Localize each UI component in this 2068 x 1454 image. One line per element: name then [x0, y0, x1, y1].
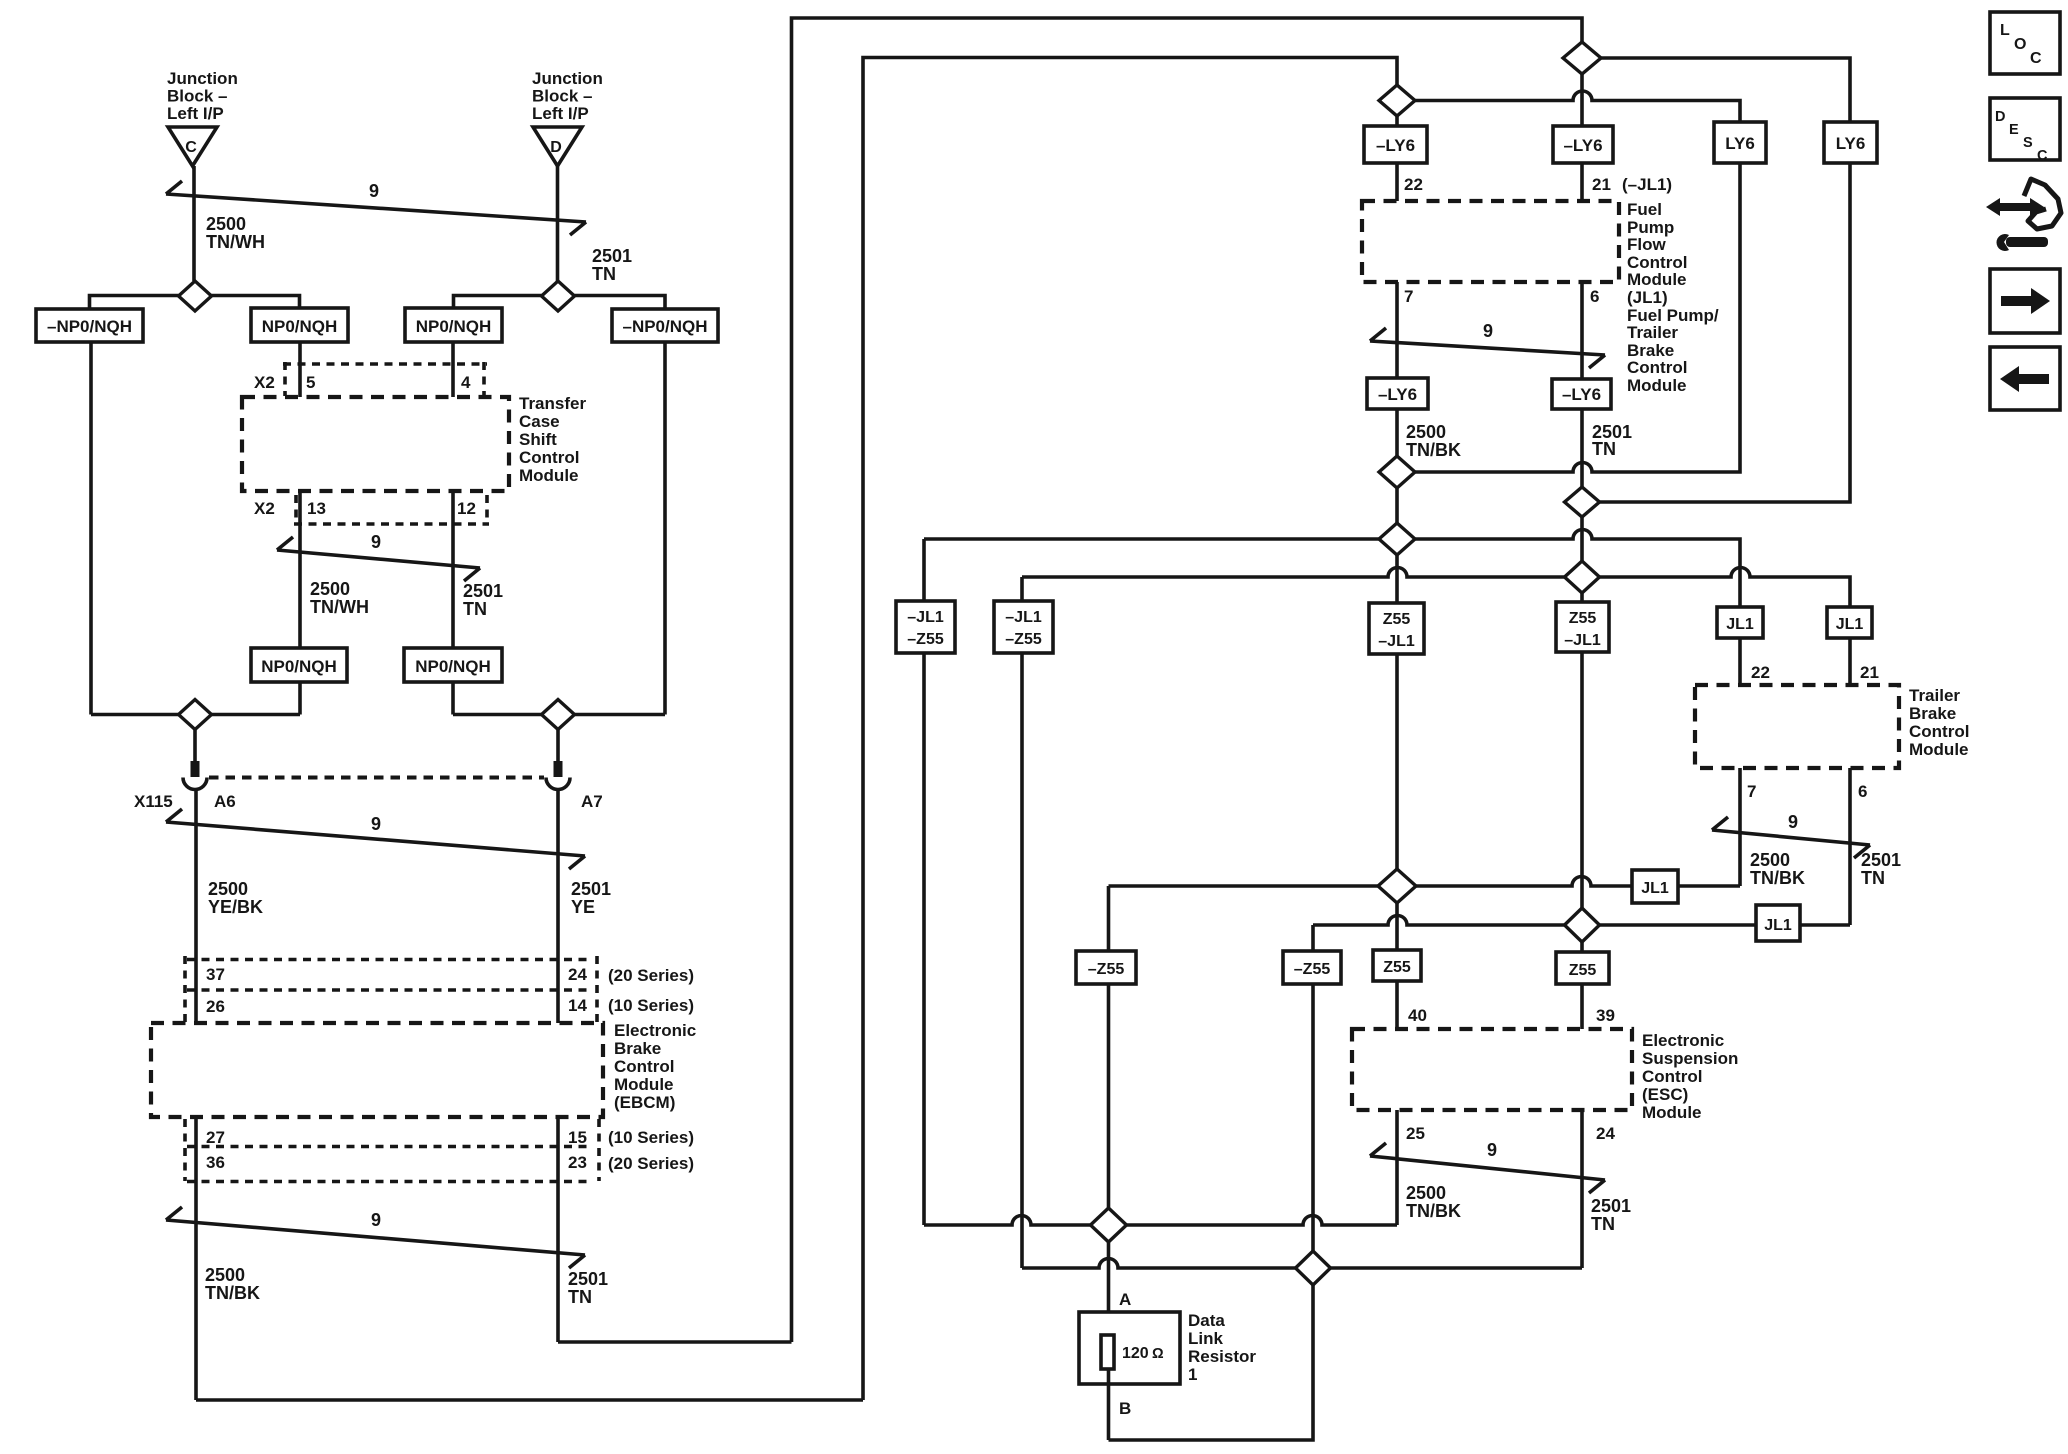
wire pin5 drop	[298, 342, 302, 397]
box LY6 left	[1714, 122, 1766, 163]
wire 2500 TN/WH from triangle C	[192, 166, 196, 281]
transfer case shift control module box	[242, 397, 509, 491]
wire pin6	[1580, 282, 1584, 379]
svg-text:TN/BK: TN/BK	[1406, 1201, 1461, 1221]
svg-text:Junction: Junction	[167, 69, 238, 88]
wire diamond to -LY6	[1580, 74, 1584, 126]
svg-text:Shift: Shift	[519, 430, 557, 449]
svg-text:7: 7	[1747, 782, 1756, 801]
junction block C label	[167, 69, 238, 123]
svg-text:–JL1: –JL1	[1378, 633, 1415, 650]
electronic suspension control module box	[1352, 1029, 1632, 1110]
svg-text:2500: 2500	[206, 214, 246, 234]
box Z55 left	[1373, 950, 1421, 981]
EBCM bottom connector left tick	[183, 1119, 187, 1181]
data link resistor label	[1188, 1311, 1256, 1384]
wire pin B loop to diamondB	[1109, 1285, 1314, 1440]
box -Z55 first	[1076, 951, 1136, 984]
svg-text:21: 21	[1860, 663, 1879, 682]
connector X2 top left tick	[283, 362, 287, 396]
wire 2501 TN from triangle D	[556, 166, 560, 281]
box -JL1 -Z55 first	[896, 601, 955, 653]
box JL1 upper right	[1827, 607, 1872, 638]
box -LY6 top right	[1553, 126, 1613, 163]
svg-text:(10 Series): (10 Series)	[608, 996, 694, 1015]
svg-text:Module: Module	[1642, 1103, 1702, 1122]
fuse block box NP0/NQH second	[251, 308, 348, 342]
icon LOC box	[1990, 12, 2060, 74]
splice crossing 9 (EBCM out)	[166, 1207, 585, 1268]
svg-text:9: 9	[1483, 321, 1493, 341]
box -LY6 mid left	[1367, 378, 1428, 409]
wire pin21 top	[1580, 163, 1584, 201]
splice diamond3	[1379, 523, 1415, 555]
svg-text:13: 13	[307, 499, 326, 518]
svg-text:40: 40	[1408, 1006, 1427, 1025]
svg-text:21: 21	[1592, 175, 1611, 194]
svg-text:–Z55: –Z55	[1088, 961, 1125, 978]
wire -LY6 to diamond1	[1395, 409, 1399, 456]
svg-text:Ω: Ω	[1152, 1346, 1164, 1362]
splice diamondB	[1296, 1251, 1331, 1285]
lower bus left of diamond D2	[453, 713, 542, 717]
svg-text:27: 27	[206, 1128, 225, 1147]
svg-text:–LY6: –LY6	[1563, 136, 1602, 155]
svg-text:X115: X115	[134, 792, 173, 811]
icon arrow left box	[1990, 347, 2060, 410]
icon DESC box	[1990, 98, 2060, 164]
wire riser -JL1-Z55 left	[922, 539, 926, 1225]
connector X2 top right tick	[482, 362, 486, 396]
svg-text:Left I/P: Left I/P	[167, 104, 224, 123]
wire pin22 top	[1395, 163, 1399, 201]
svg-text:12: 12	[457, 499, 476, 518]
icon wrench	[1997, 234, 2049, 251]
svg-text:Control: Control	[1642, 1067, 1702, 1086]
svg-text:Electronic: Electronic	[614, 1021, 696, 1040]
X115 connector stem A7	[556, 730, 560, 762]
splice diamond D2	[542, 700, 575, 730]
junction block D label	[532, 69, 603, 123]
fuse block box -NP0/NQH right	[612, 309, 718, 342]
svg-text:TN/WH: TN/WH	[206, 232, 265, 252]
svg-text:Link: Link	[1188, 1329, 1223, 1348]
wire TBC pin7	[1738, 768, 1742, 886]
svg-text:Control: Control	[1909, 722, 1969, 741]
svg-text:TN/BK: TN/BK	[1406, 440, 1461, 460]
bus diamond to left LY6 with hop	[1415, 91, 1740, 122]
svg-text:2500: 2500	[1750, 850, 1790, 870]
rowA bus right with hop	[1127, 1216, 1398, 1226]
svg-text:C: C	[2037, 148, 2048, 164]
svg-text:–LY6: –LY6	[1562, 385, 1601, 404]
svg-text:–LY6: –LY6	[1378, 385, 1417, 404]
svg-text:Brake: Brake	[1909, 704, 1956, 723]
wire pin4 drop	[451, 342, 455, 397]
svg-text:Left I/P: Left I/P	[532, 104, 589, 123]
svg-text:(JL1): (JL1)	[1627, 288, 1668, 307]
svg-text:Block –: Block –	[167, 87, 227, 106]
connector X2 bottom left tick	[294, 495, 298, 524]
wire label 2500 TN/WH lower	[310, 579, 369, 617]
wire resistor to pin B	[1107, 1369, 1111, 1440]
svg-text:Z55: Z55	[1383, 959, 1411, 976]
svg-text:A: A	[1119, 1290, 1131, 1309]
svg-text:9: 9	[1487, 1140, 1497, 1160]
wire label 2501 TN TBC	[1861, 850, 1901, 888]
splice crossing 9 (C/D)	[166, 181, 586, 235]
wire label 2501 TN bottom	[568, 1269, 608, 1307]
svg-text:39: 39	[1596, 1006, 1615, 1025]
svg-text:9: 9	[369, 181, 379, 201]
transfer case module label	[519, 394, 586, 485]
bottom wire 2501 run to right frame	[558, 1340, 792, 1344]
wire riser -JL1-Z55 right	[1020, 577, 1024, 1268]
svg-text:–NP0/NQH: –NP0/NQH	[622, 317, 707, 336]
wire label 2501 TN mid	[1592, 422, 1632, 459]
box JL1 upper left	[1717, 607, 1763, 638]
connector X2 bottom dashed line	[294, 522, 489, 526]
svg-text:JL1: JL1	[1641, 880, 1669, 897]
svg-text:Module: Module	[519, 466, 579, 485]
svg-text:2500: 2500	[1406, 422, 1446, 442]
splice crossing 9 (fuel pump)	[1370, 321, 1605, 368]
svg-text:2500: 2500	[310, 579, 350, 599]
svg-text:JL1: JL1	[1836, 616, 1864, 633]
EBCM top connector left tick	[183, 956, 187, 1023]
svg-text:LY6: LY6	[1836, 134, 1866, 153]
svg-text:15: 15	[568, 1128, 587, 1147]
splice diamond2	[1565, 487, 1600, 517]
svg-text:TN: TN	[463, 599, 487, 619]
trailer brake module label	[1909, 686, 1969, 759]
wire label 2501 TN	[592, 246, 632, 284]
svg-text:–LY6: –LY6	[1376, 136, 1415, 155]
svg-text:E: E	[2009, 122, 2019, 138]
wire ESC pin40	[1395, 903, 1399, 1029]
wire label 2500 TN/BK TBC	[1750, 850, 1805, 888]
EBCM module box	[151, 1023, 603, 1117]
svg-text:YE: YE	[571, 897, 595, 917]
svg-text:24: 24	[568, 965, 587, 984]
svg-text:2501: 2501	[1591, 1196, 1631, 1216]
wire label 2500 TN/BK	[205, 1265, 260, 1303]
wire ESC pin39	[1580, 984, 1584, 1029]
bottom wire 2500 run to right frame	[196, 1398, 863, 1402]
svg-text:9: 9	[371, 814, 381, 834]
svg-text:TN: TN	[1592, 439, 1616, 459]
wire pin13	[298, 491, 302, 648]
rowA bus left with hop	[924, 1216, 1091, 1226]
svg-text:X2: X2	[254, 373, 275, 392]
ESC module label	[1642, 1031, 1738, 1122]
wire 2501 TN from EBCM	[556, 1117, 560, 1342]
splice diamond5	[1378, 869, 1416, 903]
wire Z55-JL1 column left	[1395, 555, 1399, 869]
icon hand outline	[2024, 179, 2061, 229]
junction block triangle C	[168, 127, 217, 166]
wire 2501 YE	[556, 790, 560, 1024]
svg-text:TN/WH: TN/WH	[310, 597, 369, 617]
rowB bus right	[1331, 1266, 1583, 1270]
svg-text:9: 9	[1788, 812, 1798, 832]
wire diamond2 to diamond4	[1580, 517, 1584, 561]
splice diamondA	[1091, 1208, 1127, 1242]
svg-text:TN: TN	[568, 1287, 592, 1307]
svg-text:LY6: LY6	[1725, 134, 1755, 153]
splice diamond C	[179, 281, 212, 311]
wire pin7	[1395, 282, 1399, 378]
fuel pump module label	[1627, 200, 1719, 395]
fuel pump flow control module box	[1362, 201, 1619, 282]
svg-text:YE/BK: YE/BK	[208, 897, 263, 917]
svg-text:(ESC): (ESC)	[1642, 1085, 1688, 1104]
svg-text:9: 9	[371, 1210, 381, 1230]
box LY6 right	[1824, 122, 1877, 163]
svg-text:2501: 2501	[571, 879, 611, 899]
row4 bus right with hop to JL1 right riser	[1600, 568, 1851, 608]
box Z55 right	[1556, 952, 1609, 984]
svg-text:L: L	[2000, 22, 2010, 39]
connector X2 top dashed line	[283, 362, 487, 366]
bus bar right of diamond D	[575, 296, 666, 310]
row925 bus right through JL1	[1600, 923, 1851, 927]
splice diamond D	[542, 281, 575, 311]
row925 bus left with hop	[1313, 916, 1565, 926]
lower bus left of diamond C2	[91, 713, 179, 717]
row2 bus to LY6 right riser	[1600, 163, 1851, 502]
svg-text:NP0/NQH: NP0/NQH	[416, 317, 492, 336]
svg-text:36: 36	[206, 1153, 225, 1172]
splice crossing 9 (ESC)	[1370, 1140, 1605, 1193]
svg-text:–JL1: –JL1	[1564, 632, 1601, 649]
wire ESC pin25	[1395, 1110, 1399, 1225]
fuse block box NP0/NQH third	[405, 308, 502, 342]
svg-text:24: 24	[1596, 1124, 1615, 1143]
svg-text:D: D	[1995, 109, 2005, 125]
wire label 2500 TN/BK mid	[1406, 422, 1461, 460]
EBCM top connector right tick	[595, 956, 599, 1023]
splice crossing 9 (TBC)	[1712, 812, 1870, 858]
icon arrow right box	[1990, 269, 2060, 333]
svg-text:Control: Control	[1627, 358, 1687, 377]
svg-text:–NP0/NQH: –NP0/NQH	[47, 317, 132, 336]
wire label 2500 YE/BK	[208, 879, 263, 917]
svg-text:22: 22	[1751, 663, 1770, 682]
EBCM top connector dashed row 2	[187, 988, 592, 992]
svg-text:Block –: Block –	[532, 87, 592, 106]
svg-text:22: 22	[1404, 175, 1423, 194]
svg-text:–JL1: –JL1	[1005, 609, 1042, 626]
box -LY6 mid right	[1552, 379, 1611, 409]
box JL1 row925	[1756, 905, 1800, 941]
connector X2 bottom right tick	[485, 495, 489, 524]
bus bar right of diamond C	[212, 296, 300, 309]
svg-text:Module: Module	[1627, 376, 1687, 395]
svg-text:–JL1: –JL1	[907, 609, 944, 626]
svg-text:Data: Data	[1188, 1311, 1225, 1330]
svg-text:TN: TN	[1861, 868, 1885, 888]
svg-text:TN: TN	[592, 264, 616, 284]
wire diamond to -LY6 left	[1395, 116, 1399, 126]
splice crossing 9 (pins 13/12)	[277, 532, 480, 581]
svg-text:23: 23	[568, 1153, 587, 1172]
svg-text:2501: 2501	[568, 1269, 608, 1289]
box Z55 -JL1 left	[1369, 603, 1424, 654]
svg-text:Trailer: Trailer	[1909, 686, 1960, 705]
wire diamond6 to Z55	[1580, 942, 1584, 952]
X115 connector plug A7	[546, 761, 570, 790]
fuse box NP0/NQH lower left	[251, 648, 347, 682]
wire data link resistor pin A	[1107, 1242, 1111, 1336]
svg-text:14: 14	[568, 996, 587, 1015]
svg-text:Z55: Z55	[1569, 610, 1597, 627]
box -JL1 -Z55 second	[994, 601, 1053, 653]
lower bus right of diamond D2	[575, 713, 666, 717]
bus bar left of diamond D	[454, 296, 542, 309]
svg-text:TN/BK: TN/BK	[1750, 868, 1805, 888]
svg-text:(10 Series): (10 Series)	[608, 1128, 694, 1147]
svg-text:S: S	[2023, 135, 2033, 151]
lower bus right of diamond C2	[212, 713, 301, 717]
svg-text:Case: Case	[519, 412, 560, 431]
inner frame wire 2500 TN/BK loop	[863, 58, 1397, 1401]
svg-text:2501: 2501	[592, 246, 632, 266]
svg-text:2500: 2500	[208, 879, 248, 899]
wire label 2501 TN ESC	[1591, 1196, 1631, 1234]
wire ESC pin24	[1580, 1110, 1584, 1268]
svg-text:Transfer: Transfer	[519, 394, 586, 413]
svg-text:(20 Series): (20 Series)	[608, 966, 694, 985]
svg-text:TN: TN	[1591, 1214, 1615, 1234]
EBCM top connector dashed row 1	[187, 958, 592, 962]
wire Z55-JL1 column right	[1580, 593, 1584, 908]
wire pin12	[451, 491, 455, 648]
svg-text:7: 7	[1404, 287, 1413, 306]
X115 connector dashed line	[209, 776, 544, 780]
wire label 2500 TN/WH	[206, 214, 265, 252]
junction block triangle D	[533, 127, 582, 166]
wire JL1 to TBC pin22	[1738, 638, 1742, 685]
EBCM bottom connector dashed row 1	[187, 1145, 592, 1149]
wire label 2500 TN/BK ESC	[1406, 1183, 1461, 1221]
row886 bus right with hop through JL1	[1416, 877, 1740, 887]
svg-text:–Z55: –Z55	[1005, 631, 1042, 648]
row1 bus to LY6 riser with hop	[1415, 163, 1740, 472]
svg-text:Junction: Junction	[532, 69, 603, 88]
right outer riser wire	[663, 342, 667, 715]
svg-text:Module: Module	[1627, 270, 1687, 289]
svg-text:D: D	[550, 139, 562, 156]
wire riser -Z55 first	[1107, 886, 1111, 1208]
wire 2500 TN/BK from EBCM	[194, 1117, 198, 1400]
wire riser -Z55 second	[1311, 925, 1315, 1251]
splice crossing 9 (A6/A7)	[166, 809, 585, 869]
bus bar left of diamond C	[90, 296, 179, 310]
svg-text:Z55: Z55	[1569, 962, 1597, 979]
svg-text:(EBCM): (EBCM)	[614, 1093, 675, 1112]
svg-text:Module: Module	[614, 1075, 674, 1094]
svg-text:A7: A7	[581, 792, 603, 811]
box Z55 -JL1 right	[1556, 602, 1609, 652]
svg-text:C: C	[185, 139, 197, 156]
svg-text:Flow: Flow	[1627, 235, 1666, 254]
row3 bus right with hop to JL1 riser	[1415, 530, 1740, 608]
svg-text:2500: 2500	[205, 1265, 245, 1285]
svg-text:26: 26	[206, 997, 225, 1016]
left outer riser wire	[89, 342, 93, 715]
svg-text:Control: Control	[519, 448, 579, 467]
wire 2500 YE/BK	[194, 790, 198, 1024]
row3 bus left	[924, 537, 1379, 541]
splice diamond 2500 top	[1379, 85, 1415, 116]
fuse box NP0/NQH lower right	[404, 648, 502, 682]
row886 bus left of diamond	[1109, 884, 1379, 888]
splice diamond4	[1565, 561, 1600, 593]
svg-text:Suspension: Suspension	[1642, 1049, 1738, 1068]
icon hand double arrow	[1986, 198, 2044, 216]
svg-text:6: 6	[1858, 782, 1867, 801]
wire drop to lower bus right	[451, 682, 455, 715]
svg-text:Control: Control	[614, 1057, 674, 1076]
svg-text:Trailer: Trailer	[1627, 323, 1678, 342]
svg-text:120: 120	[1122, 1345, 1149, 1362]
wire label 2501 YE	[571, 879, 611, 917]
svg-text:Brake: Brake	[614, 1039, 661, 1058]
fuse block box -NP0/NQH left	[36, 309, 143, 342]
wire TBC pin6	[1848, 768, 1852, 925]
svg-text:25: 25	[1406, 1124, 1425, 1143]
X115 connector stem A6	[193, 730, 197, 762]
svg-text:TN/BK: TN/BK	[205, 1283, 260, 1303]
svg-text:9: 9	[371, 532, 381, 552]
EBCM bottom connector dashed row 2	[187, 1180, 592, 1184]
svg-text:X2: X2	[254, 499, 275, 518]
splice diamond top right	[1563, 42, 1601, 74]
svg-text:Module: Module	[1909, 740, 1969, 759]
splice diamond C2	[179, 700, 212, 730]
svg-text:–Z55: –Z55	[907, 631, 944, 648]
svg-text:6: 6	[1590, 287, 1599, 306]
svg-text:–Z55: –Z55	[1294, 961, 1331, 978]
row4 bus left with hop	[1022, 568, 1565, 578]
svg-text:(–JL1): (–JL1)	[1622, 175, 1672, 194]
wire -LY6 to diamond2	[1580, 409, 1584, 487]
bus from top diamond to right LY6	[1601, 58, 1850, 122]
outer frame wire 2501 TN loop	[792, 18, 1583, 1342]
svg-text:Fuel: Fuel	[1627, 200, 1662, 219]
svg-text:JL1: JL1	[1764, 917, 1792, 934]
svg-text:Electronic: Electronic	[1642, 1031, 1724, 1050]
wire diamond1 to diamond3	[1395, 488, 1399, 523]
wire drop to lower bus left	[298, 682, 302, 715]
wire label 2501 TN lower	[463, 581, 503, 619]
trailer brake control module box	[1695, 685, 1899, 768]
wire JL1 to TBC pin21	[1848, 638, 1852, 685]
box -LY6 top left	[1364, 126, 1427, 163]
svg-text:NP0/NQH: NP0/NQH	[262, 317, 338, 336]
svg-text:2500: 2500	[1406, 1183, 1446, 1203]
box -Z55 second	[1283, 951, 1341, 984]
svg-text:NP0/NQH: NP0/NQH	[415, 657, 491, 676]
splice diamond1	[1379, 456, 1415, 488]
svg-text:5: 5	[306, 373, 315, 392]
splice diamond6	[1565, 908, 1600, 942]
svg-text:4: 4	[461, 373, 471, 392]
svg-text:Z55: Z55	[1383, 611, 1411, 628]
EBCM bottom connector right tick	[597, 1119, 601, 1181]
svg-text:A6: A6	[214, 792, 236, 811]
